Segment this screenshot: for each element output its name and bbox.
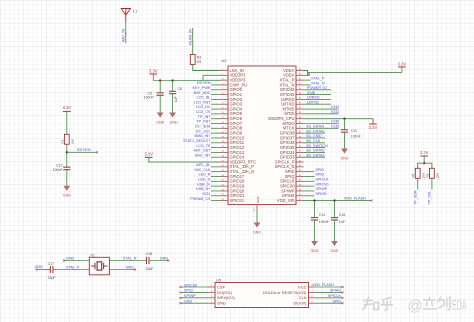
pin 43 MTDO bbox=[296, 122, 304, 124]
svg-text:SD_CLK: SD_CLK bbox=[306, 139, 321, 143]
wire I2C_SDA bbox=[211, 127, 221, 129]
capacitor C17 bbox=[49, 266, 51, 273]
svg-text:USB_D+: USB_D+ bbox=[196, 187, 210, 191]
svg-text:SPID: SPID bbox=[332, 300, 341, 304]
wire ANT_IN bbox=[125, 22, 127, 43]
wire TP_SCL bbox=[431, 178, 433, 189]
wire GND bottom-right bbox=[109, 269, 135, 271]
svg-text:CS#: CS# bbox=[217, 284, 226, 289]
pin 4 CHIP_PU bbox=[221, 84, 229, 86]
power 3.3V CPU bbox=[372, 119, 374, 124]
pin 32 SPIQ bbox=[296, 175, 304, 177]
pin 38 GPIO35 bbox=[296, 147, 304, 149]
svg-text:SD_SWITCH: SD_SWITCH bbox=[306, 144, 328, 148]
pin 53 VDDA bbox=[296, 74, 304, 76]
svg-text:BAT_ADC: BAT_ADC bbox=[194, 91, 211, 95]
capacitor C16 bbox=[334, 201, 336, 218]
svg-text:SD_DATA3: SD_DATA3 bbox=[306, 149, 325, 153]
pin 33 SPID bbox=[296, 171, 304, 173]
svg-text:XTAL_P: XTAL_P bbox=[311, 77, 325, 81]
svg-text:R1: R1 bbox=[60, 139, 64, 143]
wire IO21 bbox=[211, 195, 221, 197]
svg-text:LED_G: LED_G bbox=[198, 178, 210, 182]
pin 35 SPICLK_P bbox=[296, 161, 304, 163]
svg-text:ANT_IN: ANT_IN bbox=[122, 29, 126, 42]
wire SPID bbox=[304, 171, 315, 173]
wire LCD_DC bbox=[211, 108, 221, 110]
svg-text:TP_SCL: TP_SCL bbox=[428, 191, 432, 205]
svg-text:GND: GND bbox=[311, 249, 319, 253]
svg-text:SPICS0: SPICS0 bbox=[315, 182, 328, 186]
svg-text:DO(IO1): DO(IO1) bbox=[217, 290, 233, 295]
pin 6 CLK bbox=[309, 297, 316, 299]
wire VDD_FLASH bbox=[316, 286, 343, 288]
wire WLAN_IN bbox=[192, 28, 194, 55]
wire LCD_CS bbox=[211, 113, 221, 115]
svg-text:SPIHD: SPIHD bbox=[330, 289, 342, 293]
pin 5 DI(IO0) bbox=[309, 302, 316, 304]
watermark Zhihu @LCEDA bbox=[363, 297, 393, 310]
svg-text:SPIWP: SPIWP bbox=[315, 187, 327, 191]
junction bbox=[159, 79, 161, 81]
wire U0TXD bbox=[304, 103, 332, 105]
svg-text:3.3V: 3.3V bbox=[369, 125, 378, 130]
svg-text:100nF: 100nF bbox=[53, 168, 63, 172]
svg-text:SD_DATA1: SD_DATA1 bbox=[306, 125, 325, 129]
pin 6 GPIO1 bbox=[221, 94, 229, 96]
wire SPIWP bbox=[180, 297, 208, 299]
wire IO41 bbox=[304, 113, 339, 115]
junction bbox=[333, 199, 335, 201]
junction bbox=[313, 199, 315, 201]
svg-text:0Ω: 0Ω bbox=[197, 60, 202, 64]
svg-text:LCD_BL: LCD_BL bbox=[197, 96, 211, 100]
pin 1 CS# bbox=[208, 286, 215, 288]
svg-text:SPIHD: SPIHD bbox=[315, 192, 327, 196]
capacitor C8 bbox=[172, 81, 174, 92]
pin 42 MTCK bbox=[296, 127, 304, 129]
pin 31 SPICLK bbox=[296, 180, 304, 182]
wire VDDA rail bbox=[304, 71, 308, 76]
svg-text:U3: U3 bbox=[222, 59, 227, 63]
svg-text:RST/EN: RST/EN bbox=[77, 148, 91, 152]
wire IO46 bbox=[304, 94, 332, 96]
pin 28 SPICS1 bbox=[221, 200, 229, 202]
wire SPICLK bbox=[304, 180, 315, 182]
wire SD_DATA2 bbox=[304, 156, 326, 158]
pin 49 GPIO45 bbox=[296, 94, 304, 96]
svg-text:U5: U5 bbox=[216, 279, 221, 283]
wire PSRAM_CS bbox=[211, 200, 221, 202]
svg-text:10K: 10K bbox=[71, 138, 75, 144]
pin 51 XTAL_N bbox=[296, 84, 304, 86]
resistor R4 bbox=[415, 168, 420, 178]
svg-text:SPICS1: SPICS1 bbox=[230, 198, 245, 203]
wire I2C_SCL bbox=[211, 132, 221, 134]
svg-text:1uF: 1uF bbox=[174, 96, 178, 102]
power 3.3V top bbox=[150, 73, 158, 75]
pin 37 GPIO34 bbox=[296, 151, 304, 153]
svg-text:3.3V: 3.3V bbox=[144, 152, 153, 157]
ground bbox=[331, 241, 338, 246]
pin 12 GPIO7 bbox=[221, 122, 229, 124]
wire KEY_PWR bbox=[211, 89, 221, 91]
wire SD_CMD bbox=[304, 137, 326, 139]
wire TP_SDA bbox=[417, 178, 419, 189]
capacitor C5 bbox=[159, 81, 161, 93]
pin 46 MTMS bbox=[296, 108, 304, 110]
svg-text:SPIQ: SPIQ bbox=[184, 289, 193, 293]
capacitor C12 bbox=[63, 166, 70, 168]
wire VDD3P3_CPU bbox=[304, 118, 374, 120]
wire TP_INT bbox=[211, 118, 221, 120]
svg-text:SPICLK: SPICLK bbox=[328, 294, 342, 298]
svg-text:I2C_SCL: I2C_SCL bbox=[196, 129, 211, 133]
svg-text:STAT1_SELECT: STAT1_SELECT bbox=[183, 139, 211, 143]
pin 48 U0RXD bbox=[296, 98, 304, 100]
svg-text:IO40: IO40 bbox=[331, 120, 339, 124]
junction bbox=[343, 118, 345, 120]
wire SPIHD bbox=[316, 291, 343, 293]
svg-text:VDD_SPI: VDD_SPI bbox=[277, 198, 295, 203]
svg-text:LED_R: LED_R bbox=[199, 173, 211, 177]
svg-text:GND: GND bbox=[253, 230, 261, 234]
svg-text:HOLD# or RESET#(IO3): HOLD# or RESET#(IO3) bbox=[263, 290, 307, 295]
svg-text:10K: 10K bbox=[436, 172, 440, 178]
svg-text:WP#(IO2): WP#(IO2) bbox=[217, 295, 235, 300]
wire pullup top bbox=[423, 156, 425, 163]
pin 3 WP#(IO2) bbox=[208, 297, 215, 299]
wire LCD_BL bbox=[211, 98, 221, 100]
svg-text:GND: GND bbox=[126, 266, 135, 270]
svg-text:KEY_PWR: KEY_PWR bbox=[192, 86, 210, 90]
svg-text:IO39: IO39 bbox=[331, 125, 339, 129]
svg-text:R5: R5 bbox=[425, 173, 429, 177]
wire EN pullup bbox=[66, 112, 68, 135]
wire SPICS0 bbox=[304, 185, 315, 187]
wire SPIWP bbox=[304, 190, 315, 192]
pin 23 GPIO17 bbox=[221, 175, 229, 177]
svg-text:IO42: IO42 bbox=[331, 105, 339, 109]
pin 44 VDD3P3_CPU bbox=[296, 118, 304, 120]
flash U5 body bbox=[215, 283, 309, 308]
pin 13 GPIO8 bbox=[221, 127, 229, 129]
pin 54 VDDA bbox=[296, 70, 304, 72]
pin 24 GPIO18 bbox=[221, 180, 229, 182]
svg-text:XTAL_N: XTAL_N bbox=[311, 81, 325, 85]
pin 18 GPIO13 bbox=[221, 151, 229, 153]
svg-text:AND_INT: AND_INT bbox=[195, 153, 212, 157]
wire VDD_SPI / VDD_FLASH bbox=[304, 200, 372, 202]
crystal X1 body bbox=[89, 257, 109, 275]
svg-text:WLAN_IN: WLAN_IN bbox=[189, 29, 193, 46]
svg-text:U0TXD: U0TXD bbox=[307, 100, 319, 104]
wire TP_RST bbox=[211, 122, 221, 124]
wire USB_D+ bbox=[211, 190, 221, 192]
pin 8 VCC bbox=[309, 286, 316, 288]
wire LED_R bbox=[211, 175, 221, 177]
svg-text:PSRAM_CS: PSRAM_CS bbox=[190, 197, 211, 201]
pin 14 GPIO9 bbox=[221, 132, 229, 134]
svg-text:USB_D-: USB_D- bbox=[197, 182, 211, 186]
svg-text:VCC: VCC bbox=[298, 284, 307, 289]
wire IO39 bbox=[304, 127, 339, 129]
pin 17 GPIO12 bbox=[221, 147, 229, 149]
svg-text:TP_SDA: TP_SDA bbox=[414, 190, 418, 205]
svg-text:SD_DATA0: SD_DATA0 bbox=[306, 129, 325, 133]
svg-text:GND: GND bbox=[184, 300, 193, 304]
svg-text:GND: GND bbox=[217, 301, 226, 306]
junction bbox=[423, 162, 425, 164]
pin 47 U0TXD bbox=[296, 103, 304, 105]
svg-text:GND: GND bbox=[256, 196, 260, 204]
pin 57 GND bbox=[256, 205, 258, 212]
wire GND top-left bbox=[64, 260, 89, 262]
ground bbox=[311, 241, 318, 246]
wire VDD3P3_RTC bbox=[149, 157, 221, 162]
wire R3 to LNA_IN bbox=[193, 65, 221, 71]
pin 27 GPIO21 bbox=[221, 195, 229, 197]
svg-text:SD_CMD: SD_CMD bbox=[306, 134, 322, 138]
wire RST/EN bbox=[67, 151, 97, 153]
pin 3 VDD3P3 bbox=[221, 79, 229, 81]
svg-text:SPICLK: SPICLK bbox=[315, 178, 329, 182]
wire POWER_IO bbox=[304, 89, 332, 91]
pin 41 GPIO38 bbox=[296, 132, 304, 134]
svg-text:R4: R4 bbox=[411, 173, 415, 177]
svg-text:IO46: IO46 bbox=[307, 91, 315, 95]
ground bbox=[63, 186, 70, 191]
wire U0RXD bbox=[304, 98, 332, 100]
svg-text:VDD_FLASH: VDD_FLASH bbox=[344, 197, 366, 201]
svg-text:3.3V: 3.3V bbox=[149, 68, 158, 73]
svg-text:1uF: 1uF bbox=[339, 220, 345, 224]
svg-text:SPIQ: SPIQ bbox=[315, 173, 324, 177]
wire SPIQ bbox=[304, 175, 315, 177]
svg-text:VDD_FLASH: VDD_FLASH bbox=[312, 283, 334, 287]
svg-text:IO41: IO41 bbox=[331, 110, 339, 114]
wire SPICLK bbox=[316, 297, 343, 299]
wire LCD_TE bbox=[211, 147, 221, 149]
wire BMA_INT bbox=[211, 137, 221, 139]
pin 40 GPIO37 bbox=[296, 137, 304, 139]
svg-text:GND: GND bbox=[63, 194, 71, 198]
capacitor C11 bbox=[344, 119, 346, 130]
pin 2 DO(IO1) bbox=[208, 291, 215, 293]
pin 7 HOLD# or RESET#(IO3) bbox=[309, 291, 316, 293]
wire RST/EN bbox=[211, 84, 221, 86]
wire SD_CLK bbox=[304, 142, 326, 144]
pin 21 XTAL_32K_P bbox=[221, 166, 229, 168]
svg-text:GND: GND bbox=[331, 249, 339, 253]
svg-text:C14: C14 bbox=[319, 213, 325, 217]
antenna L1 bbox=[121, 9, 130, 16]
wire MIC_CLK bbox=[211, 171, 221, 173]
svg-text:@: @ bbox=[408, 298, 423, 315]
pin 15 GPIO10 bbox=[221, 137, 229, 139]
resistor R3 bbox=[190, 55, 195, 65]
wire USB_D- bbox=[211, 185, 221, 187]
svg-text:22pF: 22pF bbox=[146, 267, 154, 271]
pin 52 XTAL_P bbox=[296, 79, 304, 81]
svg-text:GND: GND bbox=[170, 120, 178, 124]
wire IO42 bbox=[304, 108, 339, 110]
svg-text:IO21: IO21 bbox=[203, 192, 211, 196]
svg-text:C8: C8 bbox=[177, 87, 182, 91]
svg-text:MIC_CLK: MIC_CLK bbox=[195, 168, 212, 172]
svg-text:L1: L1 bbox=[133, 10, 137, 14]
wire SD_SWITCH bbox=[304, 147, 326, 149]
wire STAT1_SELECT bbox=[211, 142, 221, 144]
svg-text:GND: GND bbox=[66, 257, 75, 261]
svg-text:XTAL_P: XTAL_P bbox=[66, 266, 80, 270]
pin 16 GPIO11 bbox=[221, 142, 229, 144]
junction bbox=[66, 151, 68, 153]
svg-text:SPID: SPID bbox=[315, 168, 324, 172]
wire AND_INT bbox=[211, 156, 221, 158]
ground bbox=[157, 113, 164, 118]
svg-text:CLK: CLK bbox=[299, 295, 307, 300]
wire XTAL_P bbox=[304, 79, 311, 81]
pin 2 VDD3P3 bbox=[221, 74, 229, 76]
pin 5 GPIO0 bbox=[221, 89, 229, 91]
svg-text:LCD_TE: LCD_TE bbox=[196, 144, 211, 148]
wire SD_DATA0 bbox=[304, 132, 326, 134]
svg-text:ANT_DET: ANT_DET bbox=[194, 149, 212, 153]
pin 26 GPIO20 bbox=[221, 190, 229, 192]
svg-text:LCD_DC: LCD_DC bbox=[196, 105, 211, 109]
pin 29 SPIWP bbox=[296, 190, 304, 192]
wire APC_DL bbox=[211, 166, 221, 168]
pin 19 GPIO14 bbox=[221, 156, 229, 158]
pin 36 GPIO33 bbox=[296, 156, 304, 158]
wire XTAL_P bbox=[53, 269, 89, 271]
svg-text:GND: GND bbox=[160, 257, 169, 261]
svg-text:3.3V: 3.3V bbox=[398, 61, 407, 66]
op-amp U3 ESP32-S3 body bbox=[228, 66, 296, 205]
pin 45 MTDI bbox=[296, 113, 304, 115]
svg-text:LCD_CS: LCD_CS bbox=[196, 110, 211, 114]
wire SPICS0 bbox=[180, 286, 208, 288]
wire R1 to junction bbox=[66, 144, 68, 167]
pin 34 SPICLK_N bbox=[296, 166, 304, 168]
pin 20 VDD3P3_RTC bbox=[221, 161, 229, 163]
pin 1 LNA_IN bbox=[221, 70, 229, 72]
svg-text:C17: C17 bbox=[48, 262, 54, 266]
capacitor C18 bbox=[146, 257, 148, 264]
pin 7 GPIO2 bbox=[221, 98, 229, 100]
ground bbox=[341, 149, 348, 154]
ground bbox=[254, 223, 261, 228]
svg-text:SPICS0: SPICS0 bbox=[184, 283, 197, 287]
pin 4 GND bbox=[208, 302, 215, 304]
pin 10 GPIO5 bbox=[221, 113, 229, 115]
svg-text:C18: C18 bbox=[146, 252, 152, 256]
svg-text:TP_INT: TP_INT bbox=[198, 115, 211, 119]
pin 27 VDD_SPI bbox=[296, 200, 304, 202]
wire XTAL_N bbox=[109, 260, 146, 262]
wire SPIQ bbox=[180, 291, 208, 293]
wire IO40 bbox=[304, 122, 339, 124]
svg-text:RST/EN: RST/EN bbox=[197, 81, 211, 85]
wire 3.3V rail to VDD3P3 bbox=[153, 80, 203, 82]
svg-text:SPIWP: SPIWP bbox=[184, 294, 196, 298]
svg-text:100nF: 100nF bbox=[144, 96, 154, 100]
svg-text:3.3V: 3.3V bbox=[62, 105, 71, 110]
svg-text:XTAL_N: XTAL_N bbox=[123, 257, 137, 261]
svg-text:I2C_SDA: I2C_SDA bbox=[195, 125, 211, 129]
pin 9 GPIO4 bbox=[221, 108, 229, 110]
wire LCD_RST bbox=[211, 103, 221, 105]
pin 11 GPIO6 bbox=[221, 118, 229, 120]
wire XTAL_N bbox=[304, 84, 311, 86]
svg-text:BMA_INT: BMA_INT bbox=[195, 134, 212, 138]
crystal symbol bbox=[91, 263, 107, 269]
wire GND bbox=[180, 302, 208, 304]
svg-text:GND: GND bbox=[341, 156, 349, 160]
wire ANT_DET bbox=[211, 151, 221, 153]
pin 39 GPIO36 bbox=[296, 142, 304, 144]
svg-text:100nF: 100nF bbox=[351, 135, 361, 139]
ground bbox=[169, 113, 176, 118]
svg-text:POWER_IO: POWER_IO bbox=[307, 86, 327, 90]
pin 30 SPICS0 bbox=[296, 185, 304, 187]
svg-text:EDA: EDA bbox=[452, 298, 467, 314]
resistor R5 bbox=[430, 168, 435, 178]
pin 28 SPIHD bbox=[296, 195, 304, 197]
pin 8 GPIO3 bbox=[221, 103, 229, 105]
junction bbox=[171, 79, 173, 81]
svg-text:100nF: 100nF bbox=[319, 220, 329, 224]
pin 25 GPIO19 bbox=[221, 185, 229, 187]
pin 22 XTAL_32K_N bbox=[221, 171, 229, 173]
svg-text:3.3V: 3.3V bbox=[420, 150, 429, 155]
svg-text:TP_RST: TP_RST bbox=[196, 120, 211, 124]
svg-text:SD_DATA2: SD_DATA2 bbox=[306, 153, 325, 157]
svg-text:APC_DL: APC_DL bbox=[196, 163, 210, 167]
pin 50 GPIO46 bbox=[296, 89, 304, 91]
svg-text:LCD_RST: LCD_RST bbox=[194, 100, 212, 104]
wire BAT_ADC bbox=[211, 94, 221, 96]
svg-text:C16: C16 bbox=[339, 213, 345, 217]
capacitor C14 bbox=[314, 201, 316, 218]
wire LED_G bbox=[211, 180, 221, 182]
svg-text:C12: C12 bbox=[56, 163, 62, 167]
svg-text:C11: C11 bbox=[351, 129, 357, 133]
wire SPIHD bbox=[304, 195, 315, 197]
resistor R1 bbox=[64, 134, 69, 144]
wire SD_DATA3 bbox=[304, 151, 326, 153]
svg-text:X1: X1 bbox=[90, 254, 95, 258]
wire IC GND bbox=[256, 212, 258, 223]
svg-text:GND: GND bbox=[156, 120, 164, 124]
svg-text:DI(IO0): DI(IO0) bbox=[293, 301, 307, 306]
power 3.3V VDDA bbox=[401, 67, 403, 72]
node VDDA flag bbox=[307, 73, 310, 76]
wire SPID bbox=[316, 302, 343, 304]
svg-text:22pF: 22pF bbox=[48, 276, 56, 280]
svg-text:U0RXD: U0RXD bbox=[307, 96, 320, 100]
